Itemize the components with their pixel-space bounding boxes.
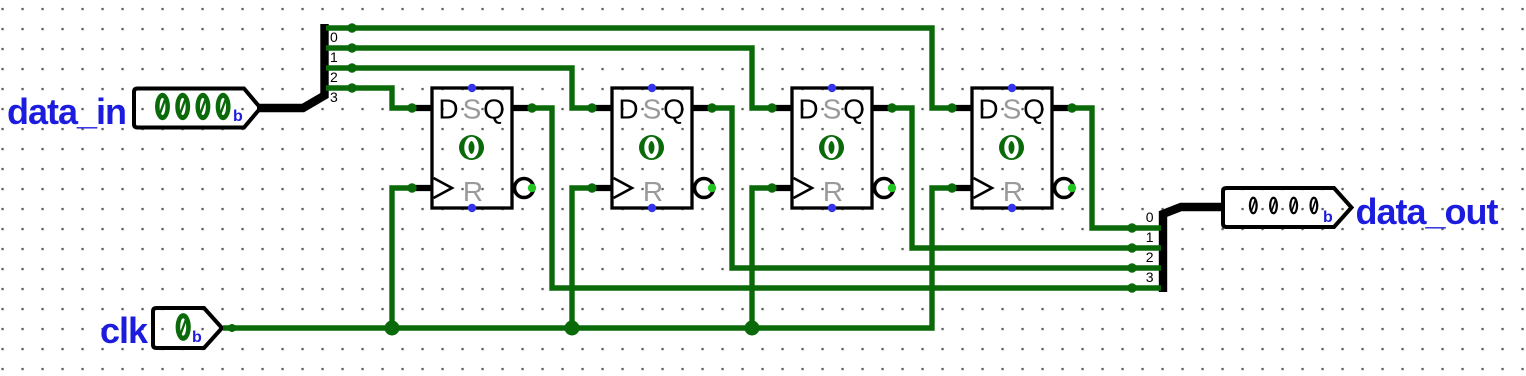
FF4 inverted-Q bubble [1055,179,1074,198]
FF3 Q output stub [872,105,892,111]
wire clk riser to FF2 [572,188,592,328]
FF2 inverted-Q bubble [695,179,714,198]
FF2 Q pin node [707,103,716,112]
node splitter SP2 bit1 connection [1127,243,1136,252]
label data_out [1356,191,1499,232]
FF3 clock triangle [794,178,813,198]
FF2 clock triangle [614,178,633,198]
svg-text:R: R [643,176,663,207]
FF2 D input stub [592,105,612,111]
FF4 clock triangle [974,178,993,198]
svg-text:S: S [643,94,662,125]
wire bit0 (splitter to FF4 D) [326,28,952,108]
svg-text:D: D [798,94,818,125]
FF2 D pin node [587,103,596,112]
svg-text:Q: Q [483,94,505,125]
svg-text:D: D [618,94,638,125]
D flip-flop FF4 body [972,88,1052,208]
svg-text:D: D [438,94,458,125]
wire clk riser to FF1 [392,188,412,328]
svg-text:S: S [823,94,842,125]
wire bit3 (splitter to FF1 D) [326,88,412,108]
splitter SP2 (output combine, spine+bus) [1163,207,1223,292]
FF3 Q pin node [887,103,896,112]
FF1 clock triangle [434,178,453,198]
FF4 letter R (reset) [1003,176,1023,207]
FF3 clock input stub [772,185,792,191]
FF3 R pin (floating) [828,204,836,212]
svg-text:2: 2 [1146,249,1154,265]
svg-text:b: b [192,329,202,346]
svg-text:b: b [233,108,243,125]
FF2 state value 0 [639,135,664,160]
splitter SP1 bit labels 0-3 [330,29,338,105]
FF4 D pin node [947,103,956,112]
label data_in [7,91,126,132]
node clk pin connection [228,324,236,332]
FF1 Q output stub [512,105,532,111]
FF1 R pin (floating) [468,204,476,212]
FF2 clock input stub [592,185,612,191]
FF2 letter R (reset) [643,176,663,207]
wire Q2 (FF2 Q to out-splitter bit2) [712,108,1161,268]
FF4 inverted-Q value dot (1) [1068,184,1076,192]
splitter SP2 bit labels 0-3 [1146,209,1154,285]
node splitter SP2 bit0 connection [1127,223,1136,232]
svg-text:data_in: data_in [7,91,126,132]
FF2 R pin (floating) [648,204,656,212]
svg-text:clk: clk [100,310,149,351]
FF3 D input stub [772,105,792,111]
wire Q3 (FF3 Q to out-splitter bit1) [892,108,1161,248]
FF3 S pin (floating) [828,84,836,92]
FF4 D input stub [952,105,972,111]
FF3 inverted-Q value dot (1) [888,184,896,192]
node splitter SP1 bit0 connection [347,23,356,32]
FF2 pin letters D S Q [618,94,685,125]
FF2 Q output stub [692,105,712,111]
FF3 D pin node [767,103,776,112]
FF2 inverted-Q value dot (1) [708,184,716,192]
FF1 D input stub [412,105,432,111]
svg-text:Q: Q [843,94,865,125]
FF1 clock pin node [407,183,416,192]
wire clk trunk [223,188,952,328]
FF1 inverted-Q value dot (1) [528,184,536,192]
svg-text:0: 0 [1146,209,1154,225]
node splitter SP2 bit3 connection [1127,283,1136,292]
FF3 pin letters D S Q [798,94,865,125]
svg-text:1: 1 [1146,229,1154,245]
svg-text:Q: Q [663,94,685,125]
FF1 S pin (floating) [468,84,476,92]
junction clk/FF3 riser [745,321,760,336]
junction clk/FF2 riser [565,321,580,336]
FF1 inverted-Q bubble [515,179,534,198]
svg-text:R: R [463,176,483,207]
input pin data_in (4-bit, value 0000) [134,89,261,128]
svg-text:1: 1 [330,49,338,65]
FF2 clock pin node [587,183,596,192]
svg-text:2: 2 [330,69,338,85]
FF3 state value 0 [819,135,844,160]
FF4 S pin (floating) [1008,84,1016,92]
wire Q4 (FF4 Q to out-splitter bit0) [1072,108,1161,228]
junction clk/FF1 riser [385,321,400,336]
wire bit2 (splitter to FF2 D) [326,68,592,108]
FF1 state value 0 [459,135,484,160]
svg-text:3: 3 [1146,269,1154,285]
svg-text:R: R [1003,176,1023,207]
input pin clk (1-bit, value 0) [153,308,222,348]
label clk [100,310,149,351]
FF1 pin letters D S Q [438,94,505,125]
D flip-flop FF3 body [792,88,872,208]
FF4 pin letters D S Q [978,94,1045,125]
FF3 clock pin node [767,183,776,192]
splitter SP1 (input fan-out, spine+bus) [257,24,325,108]
FF4 Q output stub [1052,105,1072,111]
FF4 R pin (floating) [1008,204,1016,212]
FF1 letter R (reset) [463,176,483,207]
FF4 Q pin node [1067,103,1076,112]
svg-text:R: R [823,176,843,207]
svg-text:Q: Q [1023,94,1045,125]
svg-text:0: 0 [330,29,338,45]
FF4 clock pin node [947,183,956,192]
FF1 D pin node [407,103,416,112]
D flip-flop FF2 body [612,88,692,208]
output pin data_out (4-bit, value 0000) [1223,188,1352,227]
svg-text:3: 3 [330,89,338,105]
FF3 letter R (reset) [823,176,843,207]
svg-text:data_out: data_out [1356,191,1499,232]
svg-text:S: S [463,94,482,125]
wire Q1 (FF1 Q to out-splitter bit3) [532,108,1161,288]
node splitter SP1 bit1 connection [347,43,356,52]
node splitter SP1 bit2 connection [347,63,356,72]
FF1 Q pin node [527,103,536,112]
FF4 clock input stub [952,185,972,191]
D flip-flop FF1 body [432,88,512,208]
svg-text:D: D [978,94,998,125]
svg-text:S: S [1003,94,1022,125]
FF1 clock input stub [412,185,432,191]
FF2 S pin (floating) [648,84,656,92]
node splitter SP1 bit3 connection [347,83,356,92]
FF4 state value 0 [999,135,1024,160]
wire clk riser to FF3 [752,188,772,328]
svg-text:b: b [1323,209,1333,226]
node splitter SP2 bit2 connection [1127,263,1136,272]
FF3 inverted-Q bubble [875,179,894,198]
wire bit1 (splitter to FF3 D) [326,48,772,108]
